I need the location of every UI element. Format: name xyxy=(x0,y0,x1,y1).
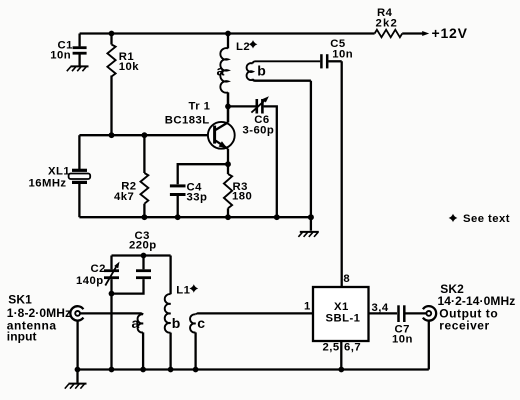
svg-text:C2: C2 xyxy=(91,263,106,275)
svg-text:140p: 140p xyxy=(76,275,104,287)
svg-text:BC183L: BC183L xyxy=(165,115,210,127)
svg-text:See text: See text xyxy=(463,213,510,225)
svg-text:b: b xyxy=(172,315,181,331)
svg-text:2k2: 2k2 xyxy=(376,18,398,30)
svg-text:16MHz: 16MHz xyxy=(29,178,67,190)
svg-text:Tr 1: Tr 1 xyxy=(189,101,211,113)
svg-text:6,7: 6,7 xyxy=(344,342,361,354)
svg-text:SBL-1: SBL-1 xyxy=(326,313,361,325)
svg-text:a: a xyxy=(217,63,225,79)
svg-text:c: c xyxy=(197,315,205,331)
svg-text:4k7: 4k7 xyxy=(114,191,134,203)
svg-text:3,4: 3,4 xyxy=(372,302,389,314)
svg-text:1: 1 xyxy=(304,301,311,313)
svg-text:10n: 10n xyxy=(332,49,353,61)
svg-text:180: 180 xyxy=(232,191,252,203)
svg-text:b: b xyxy=(257,63,266,79)
svg-text:X1: X1 xyxy=(334,301,349,313)
svg-text:33p: 33p xyxy=(187,191,208,203)
svg-text:10n: 10n xyxy=(50,49,71,61)
svg-text:a: a xyxy=(132,315,140,331)
svg-text:receiver: receiver xyxy=(439,318,489,332)
svg-text:10n: 10n xyxy=(392,334,413,346)
svg-text:+12V: +12V xyxy=(432,25,468,41)
svg-text:L1: L1 xyxy=(176,285,190,297)
svg-text:SK1: SK1 xyxy=(8,292,32,306)
svg-text:XL1: XL1 xyxy=(48,165,70,177)
svg-text:input: input xyxy=(7,329,37,343)
svg-text:10k: 10k xyxy=(119,61,139,73)
svg-text:3-60p: 3-60p xyxy=(243,124,275,136)
svg-text:220p: 220p xyxy=(129,239,157,251)
svg-text:2,5: 2,5 xyxy=(323,342,340,354)
svg-text:8: 8 xyxy=(343,273,350,285)
svg-text:L2: L2 xyxy=(236,41,250,53)
